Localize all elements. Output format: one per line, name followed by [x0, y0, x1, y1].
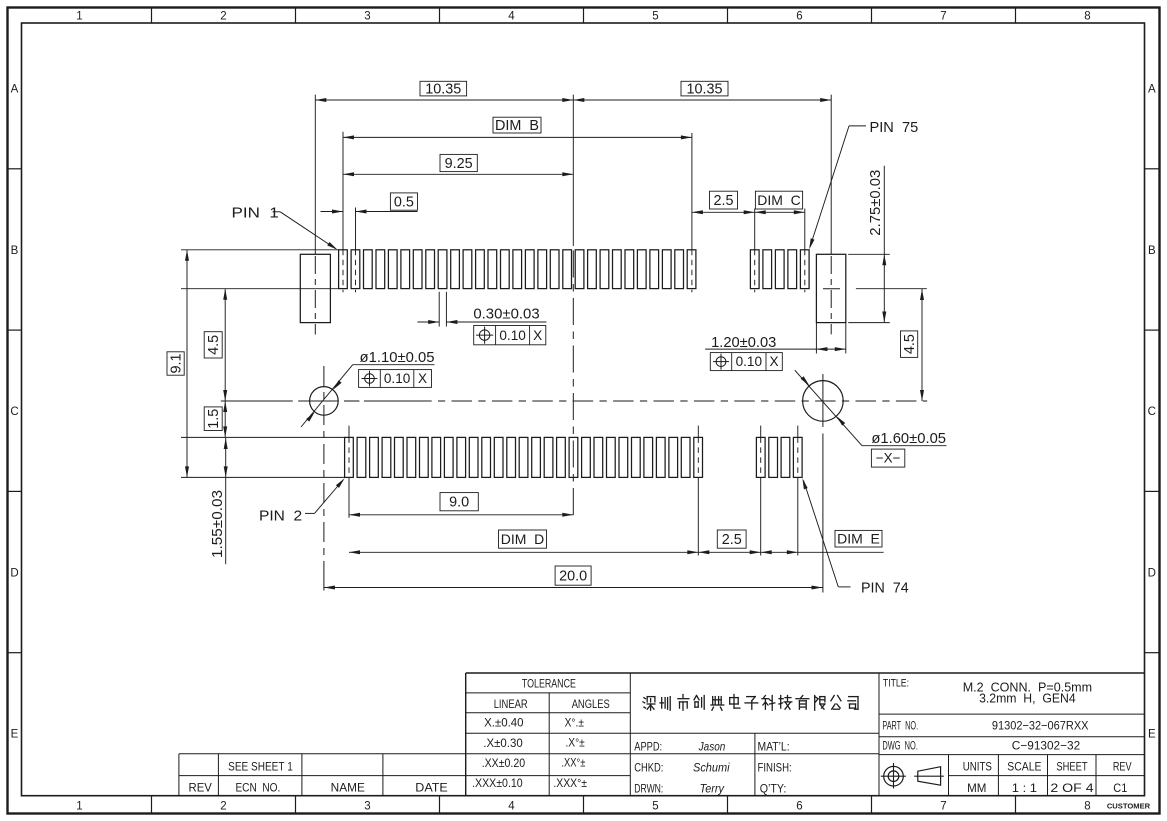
svg-text:4.5: 4.5 — [902, 334, 918, 354]
last long top pad center line — [691, 133, 693, 292]
dimension 4.5 left — [204, 289, 227, 401]
svg-text:ANGLES: ANGLES — [572, 697, 610, 711]
dimension DIM B — [343, 117, 692, 139]
top short group first pad center line — [754, 209, 756, 293]
left mounting pad center line — [314, 95, 316, 335]
svg-text:X: X — [533, 328, 542, 343]
svg-text:1: 1 — [76, 801, 82, 813]
top pad row short group pins 67-75 — [750, 250, 809, 289]
bottom short group first pad center line — [760, 426, 762, 556]
projection symbol cell — [881, 755, 949, 796]
svg-text:.XXX°±: .XXX°± — [553, 776, 587, 790]
svg-text:.XX°±: .XX°± — [561, 756, 585, 770]
svg-text:DIM B: DIM B — [495, 118, 539, 134]
units scale sheet rev cells — [949, 755, 1145, 796]
customer note bottom right — [1107, 802, 1151, 811]
pin 74 label and leader — [802, 478, 908, 596]
dimension 4.5 right — [901, 289, 925, 401]
svg-text:3: 3 — [364, 801, 370, 813]
zone row letters left — [10, 84, 18, 741]
svg-text:9.0: 9.0 — [449, 495, 469, 511]
svg-text:6: 6 — [796, 11, 802, 23]
left hole center line vertical — [323, 366, 325, 591]
dimension DIM D — [349, 530, 698, 554]
svg-text:9.25: 9.25 — [445, 156, 473, 172]
svg-text:1: 1 — [76, 11, 82, 23]
svg-text:4.5: 4.5 — [206, 335, 222, 355]
zone row letters right — [1148, 84, 1156, 741]
dimension 2.75 right pad height — [867, 166, 886, 323]
right hole center line vertical — [822, 374, 824, 593]
svg-text:LINEAR: LINEAR — [494, 697, 528, 711]
svg-text:B: B — [11, 245, 19, 257]
svg-text:.XX±0.20: .XX±0.20 — [482, 756, 526, 770]
svg-text:ECN NO.: ECN NO. — [235, 783, 280, 795]
svg-text:2 OF 4: 2 OF 4 — [1050, 781, 1094, 795]
svg-text:2.5: 2.5 — [713, 193, 733, 209]
bottom short group last pad center line — [797, 426, 799, 556]
dimension 2.5 top — [692, 191, 755, 214]
left hole circle dia 1.10 — [310, 387, 339, 416]
svg-text:.X±0.30: .X±0.30 — [483, 736, 523, 750]
dwg no row — [879, 738, 1145, 754]
zone column ticks bottom — [152, 796, 1016, 814]
extension line top of top pads — [181, 249, 339, 251]
svg-text:MM: MM — [967, 781, 986, 795]
right hole circle dia 1.60 — [803, 381, 844, 422]
last long bottom pad center line — [697, 426, 699, 556]
dimension dia 1.10 left hole with tolerance frame — [301, 350, 435, 427]
svg-text:C1: C1 — [1113, 781, 1127, 795]
pin 2 label and leader — [259, 478, 345, 524]
svg-text:REV: REV — [1113, 759, 1132, 773]
svg-text:Terry: Terry — [700, 782, 725, 796]
dimension 0.30 pad width with tolerance frame — [417, 292, 546, 345]
svg-text:7: 7 — [940, 801, 946, 813]
zone column ticks top — [152, 8, 1016, 24]
zone row ticks right — [1145, 169, 1160, 653]
svg-text:PIN 74: PIN 74 — [861, 580, 909, 596]
dimension 9.25 — [343, 154, 573, 176]
right mounting pad center line — [830, 95, 832, 335]
svg-text:ø1.10±0.05: ø1.10±0.05 — [360, 350, 435, 366]
svg-text:PIN 75: PIN 75 — [870, 120, 919, 136]
svg-text:C: C — [1148, 406, 1156, 418]
bottom pad row long group pins 2-58 — [345, 437, 703, 477]
svg-text:8: 8 — [1084, 801, 1090, 813]
svg-text:PIN 1: PIN 1 — [232, 205, 279, 221]
dimension 1.20 right pad width with tolerance frame — [705, 323, 846, 371]
svg-text:7: 7 — [940, 11, 946, 23]
svg-text:2.5: 2.5 — [722, 532, 742, 548]
svg-text:4: 4 — [508, 801, 515, 813]
svg-text:MAT’L:: MAT’L: — [758, 739, 790, 753]
svg-text:SEE SHEET 1: SEE SHEET 1 — [228, 762, 293, 774]
extension line right pad top edge — [848, 253, 890, 255]
svg-text:10.35: 10.35 — [425, 82, 461, 98]
top short group last pad center line — [804, 209, 806, 293]
svg-text:−X−: −X− — [876, 451, 901, 466]
svg-text:UNITS: UNITS — [963, 759, 992, 773]
extension line bottom of bottom pads — [181, 476, 345, 478]
approval rows — [630, 733, 879, 796]
svg-text:DIM C: DIM C — [757, 192, 801, 208]
svg-text:0.30±0.03: 0.30±0.03 — [473, 307, 539, 323]
svg-text:C: C — [10, 406, 18, 418]
svg-text:Schumi: Schumi — [693, 760, 730, 774]
svg-text:A: A — [1148, 84, 1156, 96]
top pad row long group pins 1-57 — [339, 250, 696, 289]
svg-text:PIN 2: PIN 2 — [259, 508, 302, 524]
pin 75 label and leader — [809, 120, 918, 250]
svg-text:FINISH:: FINISH: — [758, 760, 792, 774]
svg-text:E: E — [1148, 729, 1156, 741]
svg-text:X: X — [770, 354, 779, 369]
svg-text:9.1: 9.1 — [169, 353, 185, 373]
svg-text:0.10: 0.10 — [736, 354, 763, 369]
svg-text:Q’TY:: Q’TY: — [760, 782, 787, 796]
pin 1 label and leader — [232, 205, 338, 250]
horizontal center line — [221, 400, 927, 402]
dimension DIM C — [755, 191, 805, 214]
svg-text:0.10: 0.10 — [384, 371, 411, 386]
dimension dia 1.60 right hole with datum X — [795, 370, 947, 467]
svg-text:3: 3 — [364, 11, 370, 23]
dimension 10.35 left — [315, 81, 573, 102]
dimension 2.5 bottom — [698, 530, 760, 554]
svg-text:2: 2 — [220, 11, 226, 23]
svg-text:DATE: DATE — [415, 783, 448, 795]
svg-text:PART NO.: PART NO. — [882, 721, 918, 733]
zone column numbers bottom — [76, 801, 1090, 813]
svg-text:6: 6 — [796, 801, 802, 813]
extension line bottom of top pads — [181, 288, 339, 290]
dimension 1.55 bottom pad height — [209, 438, 228, 564]
extension line pads bottom right side — [856, 288, 927, 290]
svg-text:10.35: 10.35 — [686, 82, 722, 98]
svg-text:A: A — [11, 84, 19, 96]
svg-text:X: X — [418, 371, 427, 386]
dimension 10.35 right — [573, 81, 831, 102]
svg-text:5: 5 — [652, 11, 658, 23]
svg-text:Jason: Jason — [698, 739, 726, 753]
svg-text:DRWN:: DRWN: — [634, 782, 663, 796]
right mounting pad center cross dash — [823, 288, 840, 290]
tolerance table — [179, 673, 879, 796]
svg-text:DWG NO.: DWG NO. — [882, 740, 918, 752]
pin 1 center line — [342, 132, 344, 292]
dimension 20.0 — [324, 566, 823, 590]
svg-text:CHKD:: CHKD: — [634, 760, 663, 774]
title block outline — [466, 673, 1145, 796]
svg-text:APPD:: APPD: — [634, 739, 662, 753]
dimension 0.5 pitch — [321, 193, 418, 214]
svg-text:D: D — [10, 567, 18, 579]
dimension 9.0 — [349, 493, 573, 517]
svg-text:.X°±: .X°± — [565, 736, 585, 750]
svg-text:91302−32−067RXX: 91302−32−067RXX — [992, 719, 1089, 733]
svg-text:3.2mm H, GEN4: 3.2mm H, GEN4 — [979, 691, 1076, 706]
svg-text:DIM D: DIM D — [501, 531, 545, 547]
dimension 9.1 left — [167, 250, 189, 478]
svg-text:2: 2 — [220, 801, 226, 813]
svg-text:.XXX±0.10: .XXX±0.10 — [472, 776, 523, 790]
zone column numbers top — [76, 11, 1090, 23]
extension line right pad bottom edge — [848, 322, 890, 324]
svg-text:8: 8 — [1084, 11, 1090, 23]
svg-text:1.55±0.03: 1.55±0.03 — [209, 490, 226, 558]
svg-text:1.20±0.03: 1.20±0.03 — [711, 335, 776, 351]
svg-text:TITLE:: TITLE: — [883, 678, 909, 690]
pin 3 center line — [355, 208, 357, 293]
vertical datum center line — [572, 95, 574, 515]
svg-text:1.5: 1.5 — [206, 409, 222, 429]
svg-text:SCALE: SCALE — [1007, 759, 1041, 773]
svg-text:X.±0.40: X.±0.40 — [484, 716, 524, 730]
revision strip — [179, 754, 466, 796]
svg-text:NAME: NAME — [331, 783, 366, 795]
dimension DIM E — [761, 530, 884, 554]
svg-text:X°.±: X°.± — [565, 716, 585, 730]
pin 2 center line — [348, 426, 350, 518]
svg-text:1 : 1: 1 : 1 — [1012, 781, 1038, 795]
extension line top of bottom pads — [181, 436, 345, 438]
svg-text:0.10: 0.10 — [499, 328, 526, 343]
svg-text:2.75±0.03: 2.75±0.03 — [867, 170, 884, 236]
svg-text:E: E — [11, 729, 19, 741]
right mounting pad — [816, 254, 845, 322]
svg-text:D: D — [1148, 567, 1156, 579]
company name cell — [643, 695, 858, 711]
svg-text:CUSTOMER: CUSTOMER — [1107, 802, 1151, 811]
zone row ticks left — [8, 169, 22, 653]
svg-text:4: 4 — [508, 11, 515, 23]
svg-text:B: B — [1148, 245, 1156, 257]
left mounting pad — [300, 254, 330, 322]
svg-text:C−91302−32: C−91302−32 — [1012, 738, 1081, 752]
svg-text:REV: REV — [189, 783, 213, 795]
part no row — [879, 719, 1145, 737]
dimension 1.5 left — [204, 401, 227, 437]
svg-text:SHEET: SHEET — [1056, 759, 1088, 773]
svg-text:0.5: 0.5 — [394, 194, 414, 210]
svg-text:ø1.60±0.05: ø1.60±0.05 — [871, 431, 946, 447]
svg-text:DIM E: DIM E — [837, 531, 880, 547]
svg-text:20.0: 20.0 — [559, 569, 587, 585]
title cell — [879, 673, 1145, 796]
bottom pad row short group pins 68-74 — [756, 437, 802, 477]
svg-text:TOLERANCE: TOLERANCE — [522, 676, 576, 690]
svg-text:5: 5 — [652, 801, 658, 813]
